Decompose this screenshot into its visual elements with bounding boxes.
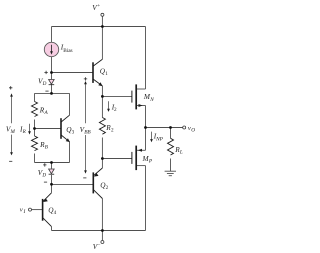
- svg-text:2: 2: [111, 128, 114, 134]
- svg-text:M: M: [10, 129, 16, 135]
- minus sign VM: [9, 160, 12, 162]
- wire MP source horizontal: [137, 149, 146, 151]
- wire node vO to output terminal: [146, 127, 183, 129]
- svg-text:3: 3: [72, 130, 75, 136]
- svg-text:−: −: [98, 242, 101, 248]
- junction node G: [101, 157, 104, 160]
- wire node F to MN gate: [102, 95, 131, 97]
- transistor Q3 (NPN): [61, 115, 70, 142]
- minus sign above node B: [45, 90, 48, 92]
- current arrow INP: [150, 132, 153, 143]
- plus sign VBB: [84, 77, 87, 80]
- wire vI terminal to Q4 base: [32, 209, 43, 211]
- svg-text:4: 4: [54, 210, 57, 216]
- junction node vO: [144, 126, 147, 129]
- ground: [165, 171, 176, 176]
- wire rail to IBias: [51, 27, 53, 43]
- wire Q1 emitter vertical: [101, 86, 103, 97]
- wire R2 to node G: [101, 138, 103, 159]
- wire MP drain to bottom rail: [145, 166, 147, 231]
- wire Q2 collector to bottom rail: [101, 199, 103, 231]
- wire RL top: [170, 128, 172, 139]
- terminal V+: [101, 13, 104, 16]
- wire Q4 collector to bottom rail: [51, 227, 53, 231]
- svg-text:D: D: [41, 173, 46, 179]
- terminal vI: [29, 208, 32, 211]
- junction top rail: [101, 25, 104, 28]
- wire MN source to node vO: [145, 106, 147, 128]
- wire bottom rail V-: [52, 230, 146, 232]
- resistor RA: [32, 102, 38, 117]
- wire node C to RB: [34, 129, 36, 137]
- voltage arrow VBB: [84, 81, 87, 174]
- svg-text:+: +: [97, 3, 100, 9]
- diode D1 (VD top): [49, 80, 55, 85]
- terminal V-: [101, 241, 104, 244]
- svg-text:BB: BB: [84, 130, 91, 136]
- svg-text:O: O: [191, 128, 195, 134]
- junction node B: [50, 92, 53, 95]
- diode D2 (VD bottom): [49, 169, 55, 174]
- wire D2 to node E: [51, 175, 53, 185]
- svg-text:N: N: [149, 97, 154, 103]
- wire node B right: [52, 92, 70, 94]
- junction bottom rail: [101, 229, 104, 232]
- wire V- stub: [101, 231, 103, 241]
- resistor R2: [99, 118, 105, 135]
- svg-text:NP: NP: [155, 136, 164, 142]
- wire node F to R2: [101, 96, 103, 117]
- junction node F: [101, 95, 104, 98]
- wire MN drain horizontal: [137, 88, 146, 90]
- wire node A to Q1 base: [52, 72, 94, 74]
- wire node C to Q3 base: [35, 128, 62, 130]
- svg-text:1: 1: [105, 71, 108, 77]
- voltage arrow VM: [10, 93, 13, 155]
- wire MN drain to top rail: [145, 27, 147, 90]
- plus sign VM: [9, 86, 12, 89]
- wire node G down to Q2 emitter: [101, 159, 103, 169]
- svg-text:2: 2: [106, 185, 109, 191]
- wire node G to MP gate: [102, 158, 131, 160]
- wire Q3 collector vertical: [69, 93, 71, 115]
- current arrow I2: [107, 101, 110, 112]
- svg-text:L: L: [179, 150, 183, 156]
- wire MN source horizontal: [137, 105, 146, 107]
- plus sign node A: [44, 71, 47, 74]
- svg-text:B: B: [45, 145, 49, 151]
- wire IBias to node A: [51, 57, 53, 73]
- terminal vO: [183, 126, 186, 129]
- wire node B down to RA: [34, 93, 36, 101]
- transistor Q1 (NPN): [93, 59, 103, 86]
- junction RL top: [169, 126, 172, 129]
- resistor RL: [168, 138, 174, 155]
- svg-text:P: P: [148, 159, 153, 165]
- svg-text:Bias: Bias: [63, 48, 72, 54]
- wire top rail V+: [52, 26, 146, 28]
- wire node E to Q2 base: [52, 183, 94, 185]
- wire RB down: [34, 154, 36, 163]
- resistor RB: [32, 136, 38, 151]
- svg-text:A: A: [44, 110, 49, 116]
- minus sign above node E: [44, 181, 47, 183]
- svg-text:2: 2: [114, 107, 117, 113]
- wire MP drain horizontal: [137, 165, 146, 167]
- wire V+ stub: [101, 16, 103, 26]
- junction node A: [50, 71, 53, 74]
- wire bottom of RB to Q3 emitter: [35, 162, 70, 164]
- svg-text:D: D: [42, 81, 47, 87]
- wire node A to diode D1: [51, 73, 53, 80]
- mosfet MP (PMOS): [132, 146, 142, 171]
- plus sign node D: [43, 163, 46, 166]
- wire node vO down to MP source: [145, 128, 147, 151]
- junction node D: [50, 161, 53, 164]
- minus sign VBB: [83, 177, 86, 179]
- current arrow IR: [28, 124, 31, 135]
- wire Q1 collector vertical: [101, 27, 103, 60]
- wire RL bottom to ground: [170, 159, 172, 172]
- transistor Q2 (PNP): [93, 168, 102, 199]
- wire node D to diode D2: [51, 163, 53, 169]
- wire node B left: [35, 92, 52, 94]
- mosfet MN (NMOS): [132, 84, 143, 109]
- wire D1 to node B: [51, 85, 53, 93]
- svg-text:I: I: [23, 209, 26, 215]
- wire Q3 emitter vertical: [69, 142, 71, 163]
- junction node E: [50, 183, 53, 186]
- wire node E down to Q4 emitter: [51, 184, 53, 192]
- transistor Q4 (PNP): [43, 193, 52, 227]
- junction node C: [33, 127, 36, 130]
- wire RA to node C: [34, 120, 36, 129]
- svg-text:v: v: [20, 206, 23, 213]
- current source IBias: [44, 42, 58, 56]
- svg-text:R: R: [22, 129, 27, 135]
